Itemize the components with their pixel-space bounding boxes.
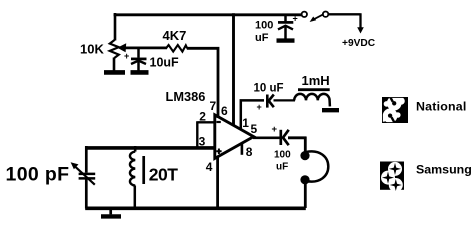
ground C1 — [131, 70, 149, 75]
wire pot lower lead — [113, 58, 116, 72]
resistor R2 4K7 — [166, 45, 187, 52]
svg-text:4K7: 4K7 — [163, 28, 187, 43]
svg-text:100 pF: 100 pF — [6, 163, 70, 185]
svg-text:10uF: 10uF — [150, 56, 180, 70]
switch S1 terminal B — [323, 12, 328, 17]
wire cap to inductor — [274, 99, 296, 101]
wire jack to rail — [304, 183, 307, 208]
svg-text:20T: 20T — [149, 165, 178, 185]
node jack terminal top — [300, 151, 309, 160]
wire pin1 to cap — [240, 100, 264, 130]
wire pin5 output — [253, 137, 280, 140]
svg-text:4: 4 — [206, 160, 213, 174]
ground bottom rail — [109, 209, 112, 215]
svg-text:+: + — [257, 102, 262, 112]
svg-text:6: 6 — [221, 104, 228, 118]
potentiometer wiper arrow — [117, 43, 126, 52]
op-amp U1 LM386 — [215, 115, 254, 159]
svg-text:7: 7 — [210, 99, 217, 113]
wire pin8 stub — [241, 143, 244, 155]
wire 4K7 to pin7 — [187, 47, 220, 118]
National logo — [380, 95, 409, 124]
svg-text:National: National — [416, 99, 466, 113]
wire switch to +9VDC — [328, 13, 360, 28]
inductor L2 20T — [134, 146, 137, 152]
svg-text:5: 5 — [251, 122, 258, 136]
wire pin6 to rail — [232, 13, 235, 126]
ground C2 — [277, 38, 295, 42]
svg-text:1mH: 1mH — [302, 73, 330, 88]
capacitor C2 100uF top — [284, 15, 287, 21]
op-amp minus sign — [216, 121, 220, 123]
wire wiper to 4K7 — [122, 47, 167, 50]
capacitor C4 100pF variable — [85, 146, 88, 173]
svg-text:100: 100 — [274, 150, 291, 161]
svg-text:+: + — [124, 51, 129, 61]
svg-text:LM386: LM386 — [166, 89, 206, 104]
arrow supply down — [357, 27, 364, 33]
op-amp plus sign — [216, 149, 221, 155]
svg-text:+: + — [293, 14, 298, 24]
ground pot — [104, 70, 125, 75]
svg-text:Samsung: Samsung — [416, 163, 472, 177]
svg-text:+9VDC: +9VDC — [342, 38, 376, 49]
wire top supply rail — [114, 13, 302, 16]
wire pot top drop — [114, 13, 117, 41]
switch S1 terminal A — [302, 12, 307, 17]
svg-text:uF: uF — [276, 162, 288, 173]
switch S1 lever — [312, 14, 324, 20]
earphone arc — [306, 151, 328, 181]
svg-text:100: 100 — [255, 20, 273, 32]
core bar 20T — [142, 156, 145, 184]
inductor core bar — [298, 88, 330, 91]
capacitor C3 10 uF — [266, 95, 269, 108]
Samsung logo — [380, 162, 404, 193]
ground L1 — [322, 108, 339, 112]
wire bottom rail — [85, 206, 306, 210]
svg-text:+: + — [272, 124, 278, 135]
svg-text:uF: uF — [255, 32, 269, 44]
wire pin4 to rail — [216, 157, 219, 209]
wire pin2 loop — [197, 121, 215, 148]
svg-text:1: 1 — [242, 116, 249, 130]
capacitor C5 100uF output — [279, 130, 282, 145]
wire tank top / pin3 — [85, 146, 215, 150]
capacitor C1 10uF — [137, 47, 140, 58]
svg-text:10K: 10K — [80, 42, 104, 57]
svg-text:8: 8 — [246, 145, 253, 159]
inductor L1 1mH — [294, 94, 330, 107]
node jack terminal bottom — [300, 175, 309, 184]
potentiometer R1 10K — [110, 40, 119, 58]
arrow C4 — [75, 166, 95, 185]
wire cap to jack — [288, 137, 307, 152]
svg-text:10 uF: 10 uF — [254, 83, 284, 95]
